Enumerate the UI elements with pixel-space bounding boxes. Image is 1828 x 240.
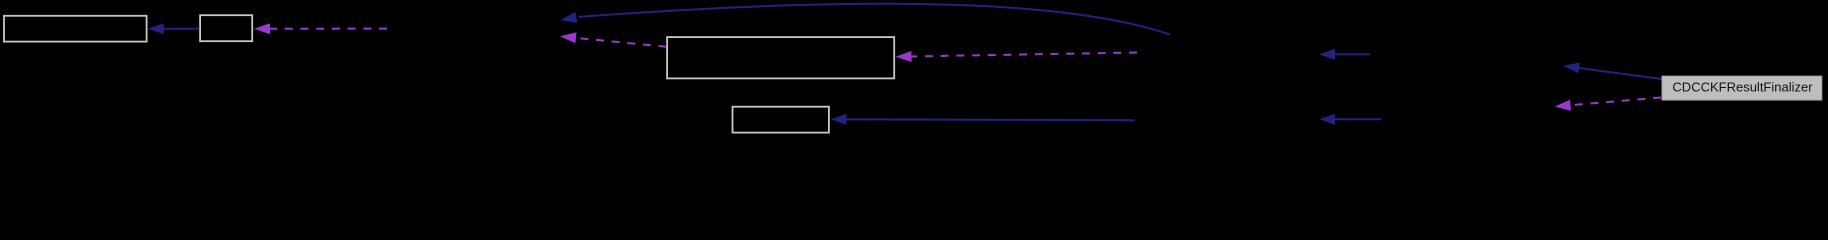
main node CDCCKFResultFinalizer [1662,76,1822,100]
solid inheritance arrow into node6 [831,114,1135,125]
dashed usage arrow: node5 to node3 [560,32,667,46]
curved inheritance arrow into node3 (top arc) [561,4,1171,35]
node box node5 [667,37,894,78]
node box node6 [733,107,829,133]
solid inheritance arrow lower middle-right [1319,114,1381,125]
node box node1 [4,16,147,42]
solid inheritance arrow upper middle-right [1319,49,1370,60]
dashed usage arrow into node5 [896,51,1138,62]
svg-text:CDCCKFResultFinalizer: CDCCKFResultFinalizer [1672,79,1813,94]
solid inheritance arrow: node2 to node1 [148,23,199,34]
dashed usage arrow into node2 [254,23,387,34]
dashed usage arrow from CDCCKFResultFinalizer [1555,98,1661,111]
node box node2 [200,15,252,41]
solid inheritance arrow from CDCCKFResultFinalizer [1563,63,1661,80]
